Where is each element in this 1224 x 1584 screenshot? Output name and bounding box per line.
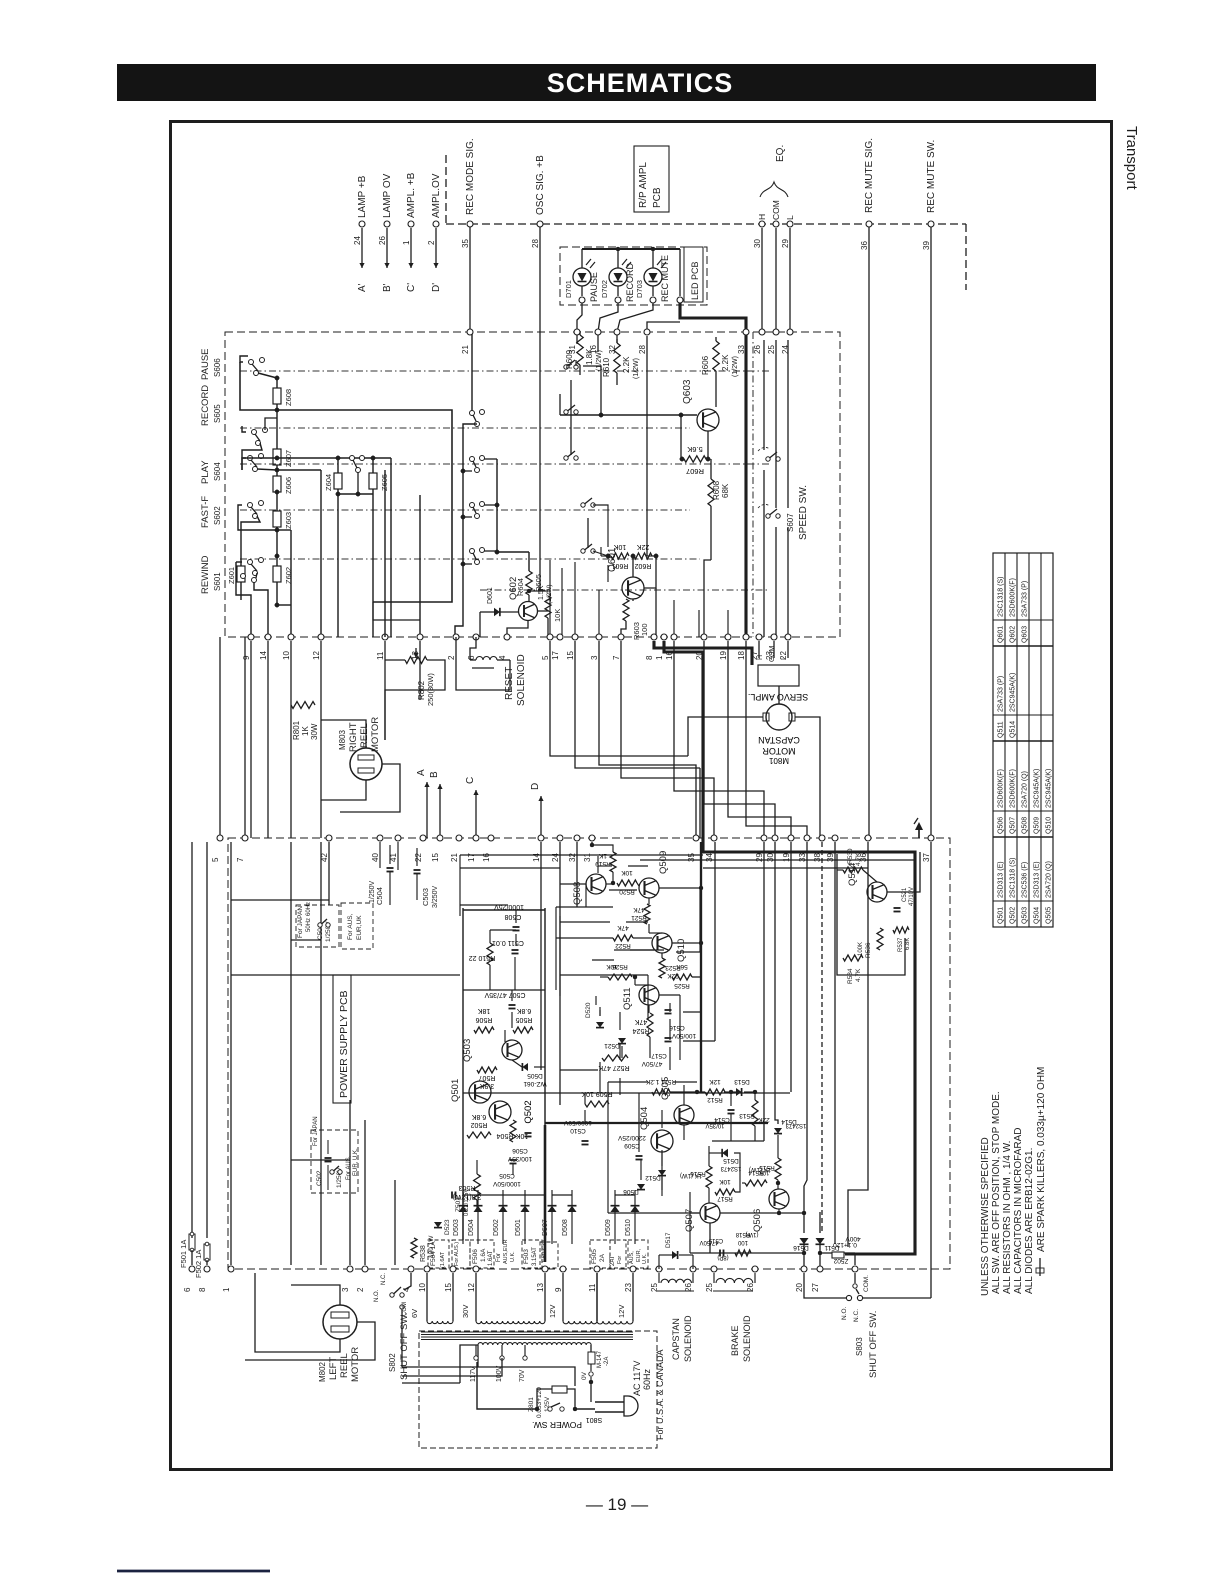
svg-text:7: 7 — [236, 857, 245, 862]
svg-text:S803: S803 — [855, 1337, 864, 1356]
svg-text:C511 0.01: C511 0.01 — [492, 939, 524, 946]
svg-text:12K: 12K — [709, 1078, 721, 1085]
svg-text:2.2K: 2.2K — [721, 354, 730, 371]
svg-text:For U.S.A. & CANADA: For U.S.A. & CANADA — [655, 1349, 665, 1440]
svg-text:Z601: Z601 — [227, 567, 236, 584]
svg-text:Q509: Q509 — [1034, 817, 1041, 834]
svg-text:15: 15 — [566, 651, 575, 660]
svg-text:2SC536 (F): 2SC536 (F) — [1022, 862, 1029, 898]
svg-text:Q514: Q514 — [1010, 721, 1017, 738]
svg-text:S601: S601 — [213, 572, 222, 591]
svg-text:6: 6 — [467, 655, 476, 660]
svg-text:47/50V: 47/50V — [641, 1060, 662, 1067]
svg-text:2SC1318 (S): 2SC1318 (S) — [1010, 858, 1017, 898]
svg-text:10/35V: 10/35V — [705, 1122, 724, 1128]
svg-text:2: 2 — [447, 655, 456, 660]
svg-text:25: 25 — [705, 1283, 714, 1292]
svg-text:D512: D512 — [645, 1174, 661, 1181]
svg-text:1.6AT: 1.6AT — [488, 1250, 494, 1266]
svg-text:0.22/125V: 0.22/125V — [464, 1189, 470, 1216]
svg-text:(1W): (1W) — [746, 1231, 759, 1237]
svg-text:Q504: Q504 — [639, 1107, 650, 1130]
svg-text:26: 26 — [753, 345, 762, 354]
svg-text:13: 13 — [536, 1283, 545, 1292]
svg-text:Q509: Q509 — [658, 851, 669, 874]
svg-text:SERVO AMPL.: SERVO AMPL. — [748, 692, 808, 702]
svg-text:For: For — [617, 1256, 623, 1264]
svg-text:Q505: Q505 — [1046, 907, 1053, 924]
svg-text:2SC945A(K): 2SC945A(K) — [1046, 769, 1053, 808]
svg-text:R522: R522 — [615, 942, 631, 949]
svg-text:N.C.: N.C. — [853, 1309, 860, 1322]
svg-text:D510: D510 — [625, 1219, 632, 1236]
svg-text:2SD600K(F): 2SD600K(F) — [998, 769, 1005, 808]
svg-text:27: 27 — [811, 1283, 820, 1292]
svg-text:21: 21 — [461, 345, 470, 354]
svg-text:AMPL. +B: AMPL. +B — [406, 172, 417, 218]
svg-text:2A: 2A — [599, 1253, 606, 1262]
svg-text:U.K.: U.K. — [642, 1253, 648, 1264]
svg-text:R517: R517 — [717, 1195, 733, 1202]
svg-text:F501 1A: F501 1A — [179, 1240, 188, 1268]
svg-text:Z502: Z502 — [833, 1257, 848, 1264]
svg-text:PAUSE: PAUSE — [200, 348, 211, 380]
svg-text:2AT: 2AT — [610, 1255, 616, 1266]
svg-text:2200/25V: 2200/25V — [617, 1134, 645, 1141]
svg-text:Q601: Q601 — [998, 626, 1005, 643]
svg-text:C506: C506 — [512, 1147, 528, 1154]
svg-text:60Hz: 60Hz — [306, 902, 312, 916]
svg-text:1: 1 — [222, 1287, 231, 1292]
svg-text:REC MUTE SIG.: REC MUTE SIG. — [864, 138, 875, 213]
svg-text:C516: C516 — [669, 1024, 685, 1031]
svg-text:Q511: Q511 — [622, 987, 633, 1010]
svg-text:WZ-061: WZ-061 — [523, 1080, 547, 1087]
svg-text:R525: R525 — [674, 982, 690, 989]
svg-text:B': B' — [382, 283, 393, 292]
svg-text:H: H — [757, 655, 764, 660]
svg-text:FAST-F: FAST-F — [200, 496, 211, 528]
svg-text:R524: R524 — [633, 1027, 650, 1034]
svg-text:LAMP +B: LAMP +B — [357, 175, 368, 218]
svg-text:12V: 12V — [617, 1305, 626, 1318]
svg-text:Q603: Q603 — [1022, 626, 1029, 643]
svg-text:Z606: Z606 — [284, 477, 293, 494]
svg-text:ALL SW. ARE OFF POSITION, STOP: ALL SW. ARE OFF POSITION, STOP MODE. — [991, 1091, 1002, 1294]
svg-text:R801: R801 — [292, 720, 301, 740]
svg-text:D505: D505 — [527, 1072, 543, 1079]
svg-text:14: 14 — [532, 853, 541, 862]
svg-text:1S2473: 1S2473 — [720, 1165, 741, 1171]
svg-text:SHUT OFF SW.: SHUT OFF SW. — [399, 1313, 410, 1380]
svg-text:R607: R607 — [686, 467, 704, 476]
svg-text:24: 24 — [781, 345, 790, 354]
svg-text:REEL: REEL — [359, 723, 370, 748]
svg-text:S605: S605 — [213, 404, 222, 423]
svg-text:40: 40 — [371, 853, 380, 862]
svg-text:LED PCB: LED PCB — [690, 261, 700, 300]
svg-text:10: 10 — [282, 651, 291, 660]
svg-text:N.O.: N.O. — [374, 1289, 380, 1302]
svg-text:31: 31 — [583, 853, 592, 862]
svg-text:9: 9 — [554, 1287, 563, 1292]
svg-text:2SD600K(F): 2SD600K(F) — [1010, 578, 1017, 617]
svg-text:R507: R507 — [479, 1074, 496, 1081]
svg-text:12V: 12V — [548, 1305, 557, 1318]
svg-text:(1/2W): (1/2W) — [732, 356, 739, 377]
svg-text:Z608: Z608 — [284, 389, 293, 406]
svg-text:D701: D701 — [564, 280, 573, 298]
svg-text:C504: C504 — [375, 887, 384, 905]
svg-text:250(30W): 250(30W) — [426, 673, 435, 706]
svg-text:R505: R505 — [516, 1016, 533, 1023]
svg-text:B: B — [429, 771, 440, 778]
svg-text:14: 14 — [259, 651, 268, 660]
svg-text:5.6K: 5.6K — [687, 445, 702, 454]
svg-text:2SD600K(F): 2SD600K(F) — [1010, 769, 1017, 808]
svg-text:F503 3A: F503 3A — [542, 1239, 548, 1262]
svg-text:AC 117V: AC 117V — [632, 1361, 642, 1396]
svg-text:Q507: Q507 — [1010, 817, 1017, 834]
svg-text:D515: D515 — [723, 1157, 739, 1164]
svg-text:ALL DIODES ARE ERB12-02G1.: ALL DIODES ARE ERB12-02G1. — [1024, 1148, 1035, 1294]
svg-text:C505: C505 — [499, 1172, 515, 1179]
svg-text:20: 20 — [795, 1283, 804, 1292]
svg-text:37: 37 — [922, 853, 931, 862]
svg-text:10K: 10K — [606, 963, 618, 970]
svg-text:MOTOR: MOTOR — [762, 746, 796, 756]
svg-text:Q503: Q503 — [462, 1039, 473, 1062]
svg-text:29: 29 — [781, 239, 790, 248]
svg-text:30V: 30V — [461, 1305, 470, 1318]
svg-text:D': D' — [431, 283, 442, 292]
svg-text:D513: D513 — [734, 1078, 750, 1085]
svg-text:R534: R534 — [847, 968, 854, 984]
svg-text:5: 5 — [541, 655, 550, 660]
svg-text:11: 11 — [588, 1283, 597, 1292]
svg-text:ALL RESISTORS IN OHM , 1/4 W.: ALL RESISTORS IN OHM , 1/4 W. — [1002, 1141, 1013, 1294]
svg-text:Z501: Z501 — [455, 1197, 462, 1212]
svg-text:2SC945A(K): 2SC945A(K) — [1034, 769, 1041, 808]
svg-text:D523: D523 — [444, 1219, 451, 1235]
svg-text:47/10V: 47/10V — [909, 887, 915, 906]
svg-text:32: 32 — [568, 853, 577, 862]
svg-text:S604: S604 — [213, 462, 222, 481]
svg-text:2SA733 (P): 2SA733 (P) — [998, 676, 1005, 712]
svg-text:SPEED SW.: SPEED SW. — [798, 485, 809, 540]
svg-text:70V: 70V — [519, 1369, 526, 1382]
svg-text:2SA720 (Q): 2SA720 (Q) — [1022, 771, 1029, 808]
svg-text:1.6A: 1.6A — [480, 1248, 487, 1262]
svg-text:3: 3 — [341, 1287, 350, 1292]
svg-text:4.7K: 4.7K — [855, 852, 862, 866]
svg-text:R/P AMPL: R/P AMPL — [638, 162, 649, 208]
svg-text:RIGHT: RIGHT — [348, 722, 359, 752]
svg-text:S602: S602 — [213, 506, 222, 525]
svg-text:47K: 47K — [633, 906, 645, 913]
svg-text:Z801: Z801 — [528, 1397, 535, 1412]
svg-text:4: 4 — [402, 1287, 411, 1292]
svg-text:For: For — [496, 1253, 502, 1262]
svg-text:(1/2W): (1/2W) — [633, 358, 640, 379]
svg-text:1000/25V: 1000/25V — [494, 903, 524, 910]
svg-text:R605: R605 — [534, 574, 543, 592]
svg-text:R606: R606 — [701, 355, 710, 375]
svg-text:R601: R601 — [612, 562, 629, 569]
svg-text:-2A: -2A — [604, 1357, 610, 1366]
svg-text:D517: D517 — [665, 1232, 672, 1248]
svg-text:R530: R530 — [847, 848, 854, 864]
svg-text:32: 32 — [608, 345, 617, 354]
svg-text:39: 39 — [922, 241, 931, 250]
svg-text:100K: 100K — [858, 942, 864, 956]
svg-text:Q502: Q502 — [1010, 907, 1017, 924]
svg-text:REC MUTE SW.: REC MUTE SW. — [926, 140, 937, 213]
svg-text:SOLENOID: SOLENOID — [742, 1315, 752, 1362]
svg-text:R538: R538 — [420, 1245, 427, 1262]
svg-text:31: 31 — [568, 345, 577, 354]
svg-text:10: 10 — [418, 1283, 427, 1292]
svg-text:M802: M802 — [318, 1361, 327, 1382]
svg-text:D: D — [530, 783, 541, 790]
svg-text:4: 4 — [498, 655, 507, 660]
svg-text:LAMP OV: LAMP OV — [382, 173, 393, 218]
svg-text:6.8K: 6.8K — [905, 938, 911, 950]
svg-text:47/50V: 47/50V — [699, 1239, 718, 1245]
svg-text:C508: C508 — [505, 913, 522, 920]
svg-text:ARE SPARK KILLERS, 0.033µ+120: ARE SPARK KILLERS, 0.033µ+120 OHM — [1036, 1067, 1047, 1252]
svg-text:H: H — [757, 214, 767, 220]
svg-text:23: 23 — [624, 1283, 633, 1292]
svg-text:100 1W: 100 1W — [428, 1235, 435, 1258]
svg-text:D521: D521 — [604, 1042, 620, 1049]
svg-text:25: 25 — [767, 345, 776, 354]
svg-text:N.C.: N.C. — [381, 1273, 387, 1285]
svg-text:18: 18 — [737, 651, 746, 660]
svg-text:C517: C517 — [651, 1052, 667, 1059]
svg-text:Q511: Q511 — [998, 721, 1005, 738]
svg-text:D506: D506 — [623, 1188, 639, 1195]
svg-text:30: 30 — [753, 239, 762, 248]
svg-text:Q510: Q510 — [676, 939, 687, 962]
svg-text:6.8K: 6.8K — [471, 1113, 486, 1120]
svg-text:F503: F503 — [523, 1249, 530, 1264]
svg-text:68K: 68K — [721, 483, 730, 498]
svg-text:D507: D507 — [542, 1219, 549, 1236]
svg-text:F506: F506 — [472, 1249, 479, 1264]
svg-text:100: 100 — [640, 623, 649, 636]
svg-text:19: 19 — [719, 651, 728, 660]
svg-text:36: 36 — [860, 241, 869, 250]
svg-text:D501: D501 — [515, 1219, 522, 1236]
svg-text:15: 15 — [431, 853, 440, 862]
svg-text:PAUSE: PAUSE — [589, 272, 599, 302]
svg-text:AMPL.OV: AMPL.OV — [431, 173, 442, 218]
svg-text:D520: D520 — [585, 1002, 592, 1018]
svg-text:10K: 10K — [553, 609, 562, 622]
svg-text:SOLENOID: SOLENOID — [516, 654, 527, 706]
svg-text:1S2473: 1S2473 — [785, 1122, 806, 1128]
svg-text:S606: S606 — [213, 358, 222, 377]
svg-text:8: 8 — [198, 1287, 207, 1292]
svg-text:Q510: Q510 — [1046, 817, 1053, 834]
svg-text:N.O.: N.O. — [841, 1306, 848, 1320]
svg-text:22: 22 — [414, 853, 423, 862]
svg-text:2: 2 — [356, 1287, 365, 1292]
svg-text:F502 1A: F502 1A — [194, 1250, 203, 1278]
svg-text:R602: R602 — [635, 562, 652, 569]
svg-text:REWIND: REWIND — [200, 555, 211, 594]
svg-text:R502: R502 — [471, 1121, 488, 1128]
svg-text:21: 21 — [450, 853, 459, 862]
svg-text:REEL: REEL — [339, 1353, 350, 1378]
svg-text:47K: 47K — [617, 924, 629, 931]
svg-text:16: 16 — [482, 853, 491, 862]
svg-text:1: 1 — [402, 240, 411, 245]
svg-text:0V: 0V — [581, 1371, 588, 1380]
svg-text:Q506: Q506 — [752, 1209, 763, 1232]
svg-text:D509: D509 — [605, 1219, 612, 1236]
svg-text:CAPSTAN: CAPSTAN — [671, 1318, 681, 1360]
svg-text:D516: D516 — [793, 1244, 809, 1251]
svg-text:2.2K: 2.2K — [622, 356, 631, 373]
svg-text:UNLESS OTHERWISE SPECIFIED: UNLESS OTHERWISE SPECIFIED — [980, 1137, 991, 1296]
svg-text:33: 33 — [737, 345, 746, 354]
svg-text:10K: 10K — [719, 1178, 731, 1185]
svg-text:35: 35 — [461, 239, 470, 248]
svg-text:REC MUTE: REC MUTE — [660, 255, 670, 302]
svg-text:MOTOR: MOTOR — [350, 1347, 361, 1382]
svg-text:C: C — [465, 777, 476, 784]
svg-text:C521: C521 — [902, 887, 908, 902]
svg-text:1: 1 — [655, 655, 664, 660]
svg-text:Q503: Q503 — [1022, 907, 1029, 924]
svg-text:U.K.: U.K. — [510, 1251, 516, 1262]
svg-text:Q506: Q506 — [998, 817, 1005, 834]
svg-text:EUR, U.K.: EUR, U.K. — [353, 1148, 359, 1176]
svg-text:2: 2 — [427, 240, 436, 245]
svg-text:24: 24 — [353, 236, 362, 245]
svg-text:1K (1W): 1K (1W) — [680, 1172, 702, 1178]
svg-text:R520: R520 — [619, 888, 635, 895]
svg-text:24: 24 — [551, 853, 560, 862]
svg-text:15: 15 — [444, 1283, 453, 1292]
svg-text:R608: R608 — [712, 480, 721, 500]
svg-text:COM: COM — [769, 646, 776, 663]
svg-text:D601: D601 — [487, 587, 494, 604]
svg-text:28: 28 — [531, 239, 540, 248]
svg-text:6V: 6V — [410, 1309, 419, 1318]
svg-text:D703: D703 — [635, 280, 644, 298]
svg-text:Q602: Q602 — [1010, 626, 1017, 643]
svg-text:CAPSTAN: CAPSTAN — [758, 735, 800, 745]
svg-text:R521: R521 — [631, 914, 647, 921]
svg-text:L: L — [781, 656, 788, 660]
svg-text:10K: 10K — [759, 1169, 770, 1175]
svg-text:11: 11 — [376, 651, 385, 660]
svg-text:Q501: Q501 — [998, 907, 1005, 924]
svg-text:D502: D502 — [493, 1219, 500, 1236]
svg-text:Q502: Q502 — [523, 1100, 534, 1123]
svg-text:R537: R537 — [898, 937, 904, 952]
svg-text:Q508: Q508 — [1022, 817, 1029, 834]
svg-text:EQ.: EQ. — [775, 145, 786, 162]
svg-text:5: 5 — [211, 857, 220, 862]
svg-text:16: 16 — [589, 345, 598, 354]
svg-text:Q603: Q603 — [682, 379, 693, 404]
svg-text:SCHEMATICS: SCHEMATICS — [547, 68, 734, 98]
svg-text:SOLENOID: SOLENOID — [683, 1315, 693, 1362]
svg-text:M803: M803 — [338, 729, 347, 750]
svg-text:Q504: Q504 — [1034, 907, 1041, 924]
svg-text:30W: 30W — [310, 723, 319, 740]
svg-text:D504: D504 — [468, 1219, 475, 1236]
svg-text:F505: F505 — [591, 1249, 598, 1264]
svg-text:S802: S802 — [388, 1353, 397, 1372]
svg-text:26: 26 — [378, 236, 387, 245]
svg-text:2SC945A(K): 2SC945A(K) — [1010, 673, 1017, 712]
svg-text:— 19 —: — 19 — — [586, 1495, 648, 1514]
svg-text:D503: D503 — [453, 1219, 460, 1236]
svg-text:Q501: Q501 — [450, 1079, 461, 1102]
svg-text:12: 12 — [312, 651, 321, 660]
svg-text:10K: 10K — [613, 543, 626, 550]
svg-text:For AUS,: For AUS, — [347, 913, 354, 940]
svg-text:C502: C502 — [316, 1170, 323, 1186]
svg-text:PLAY: PLAY — [200, 460, 211, 484]
svg-text:100: 100 — [737, 1239, 748, 1245]
svg-text:R511 1.2K: R511 1.2K — [645, 1078, 676, 1085]
svg-text:Z603: Z603 — [284, 512, 293, 529]
svg-text:1K: 1K — [301, 726, 310, 736]
svg-text:Z604: Z604 — [324, 474, 333, 491]
svg-text:3.15AT: 3.15AT — [532, 1247, 538, 1266]
svg-text:AUS,: AUS, — [629, 1251, 635, 1264]
svg-text:60Hz: 60Hz — [642, 1368, 652, 1390]
svg-text:50Hz: 50Hz — [306, 918, 312, 932]
svg-text:17: 17 — [467, 853, 476, 862]
svg-text:R504: R504 — [497, 1132, 514, 1139]
svg-text:7: 7 — [612, 655, 621, 660]
svg-text:22K: 22K — [636, 543, 649, 550]
svg-text:POWER SW.: POWER SW. — [532, 1420, 582, 1430]
svg-text:RECORD: RECORD — [625, 262, 635, 302]
svg-text:1000/50V: 1000/50V — [492, 1180, 520, 1187]
svg-text:RECORD: RECORD — [200, 385, 211, 426]
svg-text:POWER SUPPLY PCB: POWER SUPPLY PCB — [338, 990, 350, 1098]
svg-text:D508: D508 — [562, 1219, 569, 1236]
svg-text:OSC SIG. +B: OSC SIG. +B — [535, 155, 546, 215]
svg-text:C509: C509 — [624, 1142, 640, 1149]
svg-text:M-147: M-147 — [597, 1350, 603, 1368]
svg-text:100/50V: 100/50V — [671, 1032, 696, 1039]
svg-text:MOTOR: MOTOR — [370, 717, 381, 752]
svg-text:PCB: PCB — [652, 187, 663, 208]
svg-text:AUS,EUR: AUS,EUR — [503, 1240, 509, 1264]
svg-text:6.8K: 6.8K — [516, 1007, 531, 1014]
svg-text:C514: C514 — [714, 1116, 730, 1123]
svg-text:2SA733 (P): 2SA733 (P) — [1022, 581, 1029, 617]
svg-text:2SD313 (E): 2SD313 (E) — [1034, 861, 1041, 898]
svg-text:SHUT OFF SW.: SHUT OFF SW. — [868, 1311, 879, 1378]
svg-text:400V: 400V — [845, 1235, 861, 1242]
svg-text:2SA720 (Q): 2SA720 (Q) — [1046, 861, 1053, 898]
svg-text:EUR,UK: EUR,UK — [356, 915, 363, 940]
svg-text:8: 8 — [645, 655, 654, 660]
svg-text:12: 12 — [467, 1283, 476, 1292]
svg-text:For JAPAN: For JAPAN — [313, 1116, 319, 1146]
svg-text:R527 47K: R527 47K — [598, 1064, 629, 1071]
